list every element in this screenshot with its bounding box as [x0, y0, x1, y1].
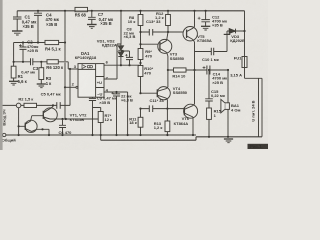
label C12: [212, 15, 227, 28]
capacitor 22uF on -U: [111, 92, 120, 135]
wire: VT3 base wire y44: [141, 43, 160, 45]
label R7: [105, 113, 113, 122]
label VD1 VD2: [97, 38, 117, 47]
node: output wire dots: [167, 69, 229, 71]
wire: +24V line right (rail corner down to FU1): [244, 11, 246, 57]
label BA1: [231, 103, 240, 113]
capacitor C10: [211, 48, 213, 56]
wire: DA1 pin 3 input: [68, 62, 78, 69]
label R6: [46, 65, 64, 70]
label VT4: [173, 86, 188, 95]
capacitor C12 (electrolytic to ground): [198, 11, 210, 26]
label R14: [172, 73, 186, 78]
capacitor C2 (electrolytic): [19, 43, 27, 62]
ground (C7): [87, 25, 97, 29]
label R5: [75, 13, 87, 18]
label -U: [97, 91, 102, 96]
capacitor C8 (22mk across VD2): [121, 51, 133, 65]
resistor R6: [47, 60, 58, 64]
resistor R7: [93, 108, 104, 136]
wire: FU1 down and to supply terminals: [245, 68, 263, 79]
label C5: [41, 92, 61, 97]
resistor R10: [138, 63, 143, 93]
label VT1 VT2: [70, 112, 88, 122]
wire: signal ground lower run: [101, 137, 262, 140]
label R3: [46, 76, 52, 86]
resistor R14: [174, 68, 187, 72]
paper background: [0, 0, 268, 150]
label DA1 amp symbol: [82, 65, 92, 69]
resistor R12: [166, 11, 171, 32]
wire: signal-ground riser under DA1: [100, 135, 102, 140]
label VT5: [197, 34, 212, 43]
wire: DA1 pin 4 with capacitor C9 to ground: [104, 92, 128, 135]
wire: input ground drop: [3, 105, 19, 135]
node: input common terminal: [2, 133, 5, 136]
wire: output rail y70: [168, 69, 228, 71]
resistor R5: [75, 7, 88, 11]
pin 4 label: [106, 87, 109, 92]
wire: VT4 base wire: [141, 92, 158, 94]
transistor VT1: [19, 116, 37, 133]
node: pin3/input riser dot: [69, 68, 71, 70]
figure caption box Ris.1: [248, 144, 269, 149]
label R2: [18, 97, 33, 102]
label C10: [202, 57, 219, 62]
capacitor C15 / resistor R15 Zobel branch: [205, 70, 213, 137]
wire: VT3 emitter to output node: [167, 56, 169, 70]
resistor R2: [24, 103, 37, 107]
transistor VT6: [184, 70, 198, 135]
ground (R3): [37, 84, 46, 88]
scan grain overlay: [0, 0, 268, 150]
speaker BA1: [221, 99, 230, 136]
label FU1: [230, 55, 242, 77]
node: emitter return dot: [41, 128, 43, 130]
capacitor C14 (electrolytic output): [203, 66, 210, 75]
node: input signal terminal: [16, 103, 21, 108]
op-amp DA1 box: [78, 64, 104, 98]
label VT6: [174, 116, 190, 126]
label R1: [18, 74, 28, 84]
node: pin2 dot: [64, 86, 66, 88]
node: lower-right bus dots: [208, 136, 229, 138]
transistor VT3: [158, 32, 172, 56]
resistor R11: [138, 109, 143, 135]
capacitor C6: [59, 119, 66, 135]
label C4: [46, 13, 60, 27]
label C11: [150, 98, 165, 103]
capacitor C4: [34, 11, 42, 43]
node: 22uF tap dot: [115, 91, 117, 93]
label C2: [27, 40, 39, 53]
resistor R4: [45, 40, 59, 44]
node: ladder dots: [139, 31, 141, 64]
label VT3: [170, 51, 185, 60]
label U pit 24 V (rotated): [251, 100, 256, 121]
wire: pin6 net vertical to ladder: [140, 63, 142, 65]
ground (C1): [12, 31, 23, 35]
capacitor C9 (0.47uF on -U under DA1): [89, 97, 96, 135]
wire: bottom ground bus: [6, 134, 196, 136]
capacitor C3: [31, 58, 33, 65]
fuse FU1: [242, 57, 247, 68]
scan blotch overlay: [0, 0, 268, 150]
label C7: [98, 12, 114, 26]
wire: VD3 anode drop with bar: [224, 31, 231, 52]
label 22uF cap: [121, 93, 133, 102]
pin 2 label: [72, 82, 75, 87]
wire: VD1/VD2 column from rail: [120, 11, 122, 46]
label C1: [22, 15, 37, 30]
wire: DA1 pin 7 and riser to rail: [104, 44, 121, 79]
node: dots lower wire: [13, 61, 43, 63]
node: VT1 base tap: [18, 125, 20, 127]
label VD3: [230, 34, 245, 43]
wire: input riser after C5 to pin3: [69, 69, 71, 105]
transistor VT4: [157, 70, 170, 109]
label R13: [154, 121, 163, 130]
node: rail junction dots: [37, 10, 207, 12]
wire: +supply top rail: [17, 10, 244, 12]
wire: VT1/VT2 emitter return: [37, 129, 49, 135]
wire: C11 wire y108.6: [141, 108, 185, 110]
label R11: [129, 116, 137, 125]
wire: bias node (R4/C2/C4) horizontal: [14, 42, 65, 44]
resistor R1: [11, 66, 16, 81]
diode VD2: [118, 52, 123, 65]
transistor VT2: [32, 105, 98, 121]
capacitor C13: [149, 29, 152, 36]
label R10: [144, 66, 153, 75]
label C9: [97, 96, 117, 105]
left page edge band: [0, 0, 3, 150]
wire: DA1 pin 2 (inverting, with circle): [65, 86, 78, 88]
resistor R8: [138, 11, 143, 32]
capacitor C11: [149, 105, 152, 112]
label R4: [45, 46, 62, 51]
label +U: [97, 80, 102, 85]
label C13: [146, 19, 161, 24]
label R9: [145, 49, 152, 59]
diode VD1: [118, 46, 123, 51]
label C15: [211, 89, 225, 98]
capacitor C5: [57, 102, 60, 109]
wire: VT5 emitter / C10 wire: [195, 42, 228, 70]
node: pin6 wire dots: [120, 64, 131, 66]
capacitor C1: [13, 11, 22, 31]
label C6: [59, 130, 73, 135]
resistor R3: [39, 62, 44, 84]
label DA1: [75, 51, 97, 60]
label C8: [124, 27, 136, 40]
wire: feedback lower wire (C3/R3/R6): [14, 43, 69, 67]
diode VD3: [227, 29, 245, 34]
node: dots on bias wire: [22, 41, 66, 43]
node: VD3 cathode dot: [243, 30, 245, 32]
wire: supply terminal pair verticals: [259, 78, 263, 137]
ground (speaker return): [224, 139, 233, 143]
wire: input signal wire: [21, 103, 70, 106]
node: ground bus dots: [18, 134, 195, 136]
node: VT4 emitter junction: [166, 108, 168, 110]
label R12: [155, 11, 164, 20]
node: C6 tap on VT2 emitter wire: [61, 118, 67, 120]
wire: vertical net R4-node to pin2 to C6: [64, 43, 66, 120]
wire: DA1 pin 6 output: [104, 64, 141, 66]
pin 3 label: [74, 64, 77, 69]
pin 6 label: [106, 59, 109, 64]
label C14: [212, 71, 227, 84]
label Vhod 3Ch (rotated): [1, 109, 6, 125]
wire: rail to R4-node riser: [64, 11, 66, 43]
wire: speaker feed: [227, 70, 229, 103]
ground (C12): [201, 26, 210, 30]
node: VT2 collector tap on input wire: [52, 104, 54, 106]
capacitor C7: [88, 11, 96, 24]
resistor R13: [165, 109, 170, 135]
ground (R1): [9, 81, 18, 85]
node: dots on ladder column low: [139, 92, 141, 110]
transistor VT5: [183, 11, 197, 42]
label R15: [214, 108, 222, 117]
label R8: [128, 15, 136, 24]
label C3: [21, 66, 39, 75]
resistor R9: [138, 32, 143, 63]
pin 7 label: [106, 76, 109, 81]
wire: bias wire y32 with capacitor C13: [141, 31, 187, 33]
node: dot at R12 bottom: [167, 31, 169, 33]
label Obschiy: [2, 138, 16, 143]
